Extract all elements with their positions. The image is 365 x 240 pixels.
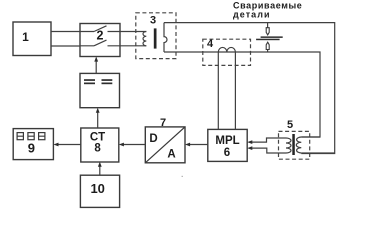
svg-text:MPL: MPL [215, 135, 239, 147]
svg-text:8: 8 [94, 143, 101, 155]
svg-text:6: 6 [224, 147, 230, 159]
svg-text:7: 7 [160, 117, 166, 129]
svg-text:5: 5 [287, 119, 293, 131]
svg-text:2: 2 [97, 29, 104, 43]
svg-text:3: 3 [150, 15, 156, 27]
svg-text:4: 4 [207, 38, 214, 50]
svg-text:10: 10 [90, 181, 104, 196]
svg-text:1: 1 [22, 30, 29, 44]
svg-text:D: D [149, 133, 157, 145]
svg-text:детали: детали [233, 10, 271, 20]
svg-text:9: 9 [28, 141, 35, 156]
svg-text:A: A [167, 149, 175, 161]
